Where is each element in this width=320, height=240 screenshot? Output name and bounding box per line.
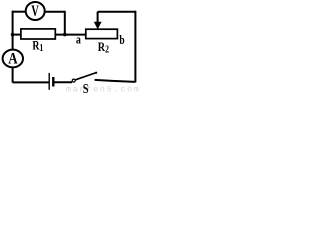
svg-text:manfen5.com: manfen5.com: [66, 86, 140, 95]
wire: bottom from left rail to battery: [13, 81, 49, 83]
wire: ammeter to bottom wire: [12, 67, 14, 82]
wire: switch to right rail: [95, 80, 136, 82]
voltmeter V: [26, 2, 45, 20]
wire: voltmeter right lead: [45, 11, 65, 13]
wire: R1 to R2: [56, 34, 86, 36]
svg-text:a: a: [76, 32, 81, 47]
ammeter A: [3, 50, 23, 68]
rheostat slider arrow: [94, 12, 102, 30]
wire: battery to switch: [55, 81, 73, 83]
svg-text:R2: R2: [98, 40, 110, 55]
wire: top-left horizontal from left rail to voltmeter: [13, 11, 26, 13]
svg-text:V: V: [31, 2, 39, 20]
wire: right rail vertical: [134, 11, 136, 83]
wire: voltmeter branch down to main wire: [64, 11, 66, 35]
junction: left rail / main wire: [11, 33, 15, 37]
battery cell: [49, 73, 53, 90]
rheostat R2 body: [86, 29, 118, 38]
wire: main wire stub from left rail to R1: [13, 34, 21, 36]
switch S (open): [72, 72, 97, 83]
wire: left rail vertical (top wire down to ammeter): [12, 11, 14, 51]
svg-text:A: A: [8, 51, 18, 68]
wire: slider stem over to right rail: [98, 11, 136, 13]
svg-text:R1: R1: [32, 39, 43, 53]
svg-text:b: b: [119, 34, 124, 48]
resistor R1: [21, 29, 55, 39]
junction: voltmeter branch / main wire: [63, 33, 67, 37]
